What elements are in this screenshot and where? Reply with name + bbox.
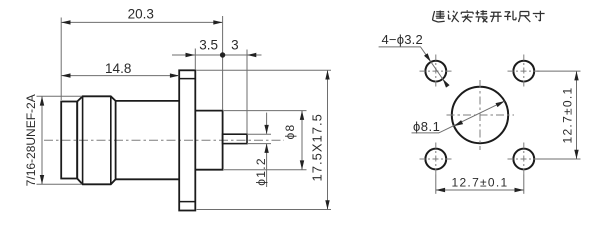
arrow 12.7 bottom left bbox=[436, 188, 445, 192]
svg-text:20.3: 20.3 bbox=[128, 7, 154, 22]
nut chamfer line right bbox=[110, 96, 112, 184]
title recommended mounting holes (drawn CJK strokes) bbox=[433, 10, 545, 22]
dim line 17.5X17.5 bbox=[327, 70, 329, 209]
dim line 12.7 right bbox=[576, 71, 578, 159]
svg-text:3.5: 3.5 bbox=[199, 37, 218, 52]
arrow phi8 up bbox=[300, 111, 304, 120]
arrow 12.7 right down bbox=[574, 150, 578, 159]
ext line pin bottom bbox=[247, 143, 271, 145]
title char cun (CJK) bbox=[533, 11, 545, 21]
crosshair center hole bbox=[447, 80, 515, 150]
ext line phi8 bottom bbox=[224, 169, 307, 171]
svg-text:ϕ1.2: ϕ1.2 bbox=[254, 157, 268, 186]
ext line thread top bbox=[37, 95, 83, 97]
centerline axis left view bbox=[44, 139, 284, 141]
ext line pin end bbox=[246, 50, 248, 134]
arrow phi8 down bbox=[300, 160, 304, 169]
arrow thread up bbox=[40, 96, 44, 105]
hole circle top-right bbox=[513, 61, 534, 82]
arrow phi8.1 lower-left bbox=[454, 120, 463, 126]
dim line phi1.2 lower bbox=[266, 144, 268, 187]
dim line phi8 bbox=[301, 111, 303, 170]
flange step line bottom bbox=[179, 201, 195, 203]
arrow 20.3 left bbox=[61, 20, 70, 24]
dot junction 3.5-3 bbox=[220, 52, 225, 57]
crosshair BR bbox=[508, 143, 541, 176]
arrow phi3.2 upper bbox=[424, 53, 431, 62]
svg-text:12.7±0.1: 12.7±0.1 bbox=[451, 175, 508, 189]
dim line phi1.2 upper bbox=[266, 113, 268, 134]
ext line pin top bbox=[247, 133, 271, 135]
svg-text:17.5X17.5: 17.5X17.5 bbox=[310, 113, 325, 181]
dim line 20.3 bbox=[61, 21, 222, 23]
ext line BR hole down bbox=[523, 175, 525, 194]
hole circle bottom-left bbox=[425, 149, 446, 170]
arrow 17.5 down bbox=[325, 200, 329, 209]
title char zhuang (CJK) bbox=[476, 10, 488, 22]
hole circle bottom-right bbox=[513, 149, 534, 170]
crosshair TR bbox=[508, 55, 541, 88]
mating face rect bbox=[61, 102, 77, 179]
title char jian (CJK) bbox=[433, 11, 445, 23]
ext line BR hole right bbox=[537, 158, 581, 160]
ext line flange right for 3.5 bbox=[194, 49, 196, 71]
ext line thread bottom bbox=[37, 183, 83, 185]
leader phi8.1 bbox=[412, 101, 505, 133]
arrow 14.8 right bbox=[170, 73, 179, 77]
arrow phi1.2 down bbox=[264, 125, 268, 134]
hole circle top-left bbox=[425, 61, 446, 82]
barrel top edge bbox=[116, 100, 180, 102]
svg-text:4−ϕ3.2: 4−ϕ3.2 bbox=[382, 32, 423, 47]
center hole circle phi8.1 bbox=[452, 87, 508, 143]
center pin bbox=[223, 134, 247, 143]
arrow phi8.1 upper-right bbox=[496, 101, 505, 107]
svg-text:ϕ8.1: ϕ8.1 bbox=[413, 119, 440, 134]
arrow 12.7 right up bbox=[574, 71, 578, 80]
flange bbox=[179, 70, 195, 210]
svg-text:3: 3 bbox=[231, 37, 239, 52]
arrow 17.5 up bbox=[325, 70, 329, 79]
title char yi (CJK) bbox=[448, 11, 459, 22]
arrow 3 outside right bbox=[247, 53, 256, 57]
nut chamfer line left bbox=[82, 96, 84, 184]
coupling nut outline bbox=[77, 96, 115, 184]
insulator boss phi8 bbox=[195, 111, 222, 170]
arrow phi1.2 up bbox=[264, 144, 268, 153]
arrow thread down bbox=[40, 175, 44, 184]
ext line BL hole down bbox=[435, 175, 437, 194]
crosshair BL bbox=[420, 143, 453, 176]
arrow 3.5 outside left bbox=[186, 53, 195, 57]
svg-text:ϕ8: ϕ8 bbox=[283, 124, 297, 140]
title char kai (CJK) bbox=[490, 12, 502, 22]
ext line phi8 top bbox=[224, 110, 307, 112]
ext line flange top right bbox=[197, 69, 332, 71]
leader underline 4-phi3.2 bbox=[379, 47, 448, 87]
arrow phi3.2 lower bbox=[443, 79, 450, 88]
title char chi (CJK) bbox=[519, 12, 531, 23]
ext line TR hole right bbox=[537, 70, 581, 72]
title char kong (CJK) bbox=[504, 11, 516, 20]
ext line flange bottom right bbox=[197, 209, 332, 211]
dim line 12.7 bottom bbox=[436, 189, 524, 191]
ext line left face bbox=[60, 18, 62, 101]
arrow 14.8 left bbox=[61, 73, 70, 77]
svg-text:14.8: 14.8 bbox=[105, 61, 131, 76]
flange step line top bbox=[179, 78, 195, 80]
svg-text:12.7±0.1: 12.7±0.1 bbox=[561, 86, 575, 143]
dim line 14.8 bbox=[61, 75, 179, 77]
ext line boss right for 20.3 and 3 bbox=[222, 16, 224, 110]
dim line thread bbox=[41, 96, 43, 184]
title char an (CJK) bbox=[461, 10, 473, 22]
svg-text:7/16-28UNEF-2A: 7/16-28UNEF-2A bbox=[24, 94, 38, 186]
dim line 3.5 and 3 bbox=[172, 54, 262, 56]
barrel bottom edge bbox=[116, 178, 180, 180]
arrow 20.3 right bbox=[213, 20, 222, 24]
crosshair TL bbox=[420, 55, 453, 88]
arrow 12.7 bottom right bbox=[515, 188, 524, 192]
